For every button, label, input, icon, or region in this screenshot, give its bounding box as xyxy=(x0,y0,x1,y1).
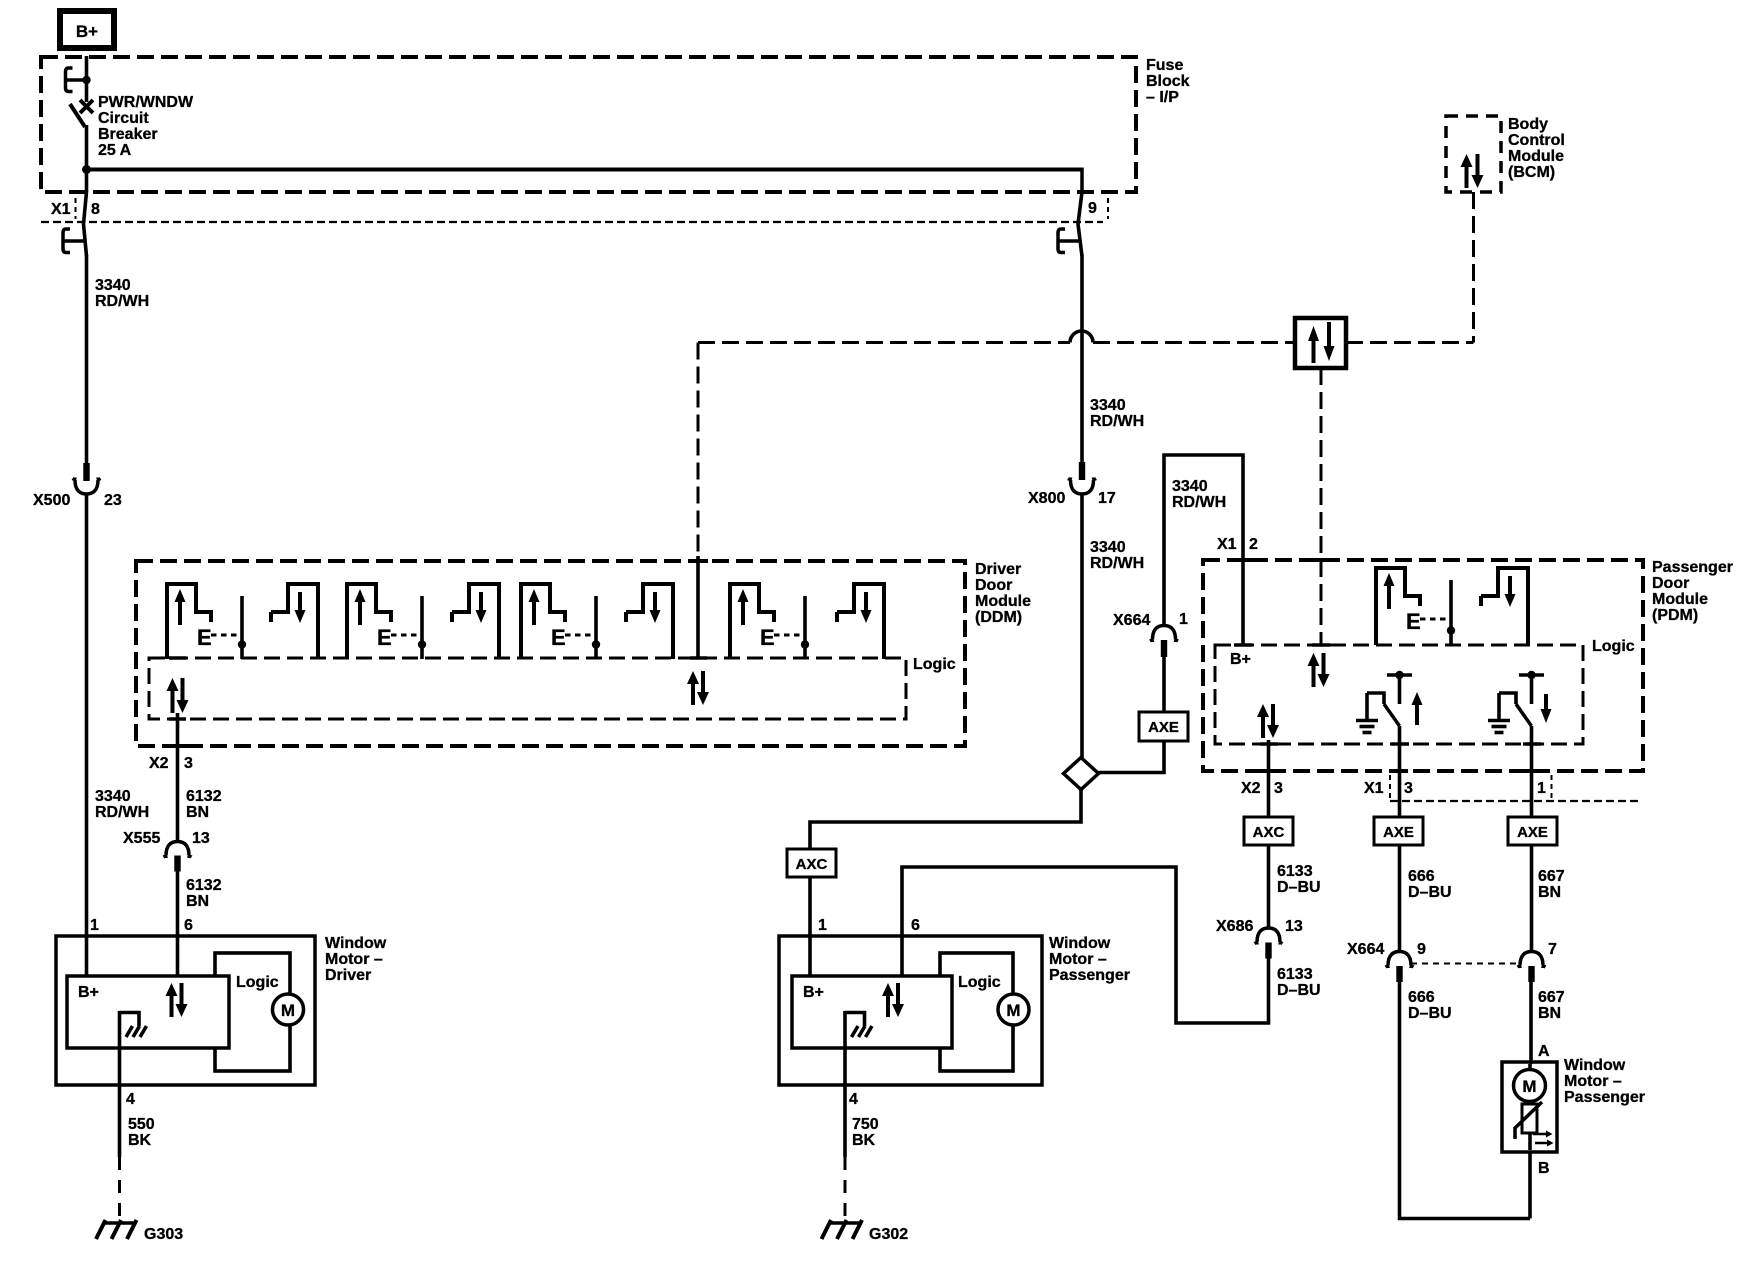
dashed wire BCM down xyxy=(1472,192,1475,343)
svg-text:RD/WH: RD/WH xyxy=(95,804,149,821)
window motor passenger box xyxy=(779,936,1042,1085)
svg-text:Logic: Logic xyxy=(958,974,1001,991)
label pin 4 (driver motor) xyxy=(126,1091,135,1108)
label driver motor B+ xyxy=(78,984,99,1001)
motor M circle (right) xyxy=(1514,1070,1546,1102)
label pin 1 (X664) xyxy=(1179,611,1188,628)
label G302 xyxy=(869,1226,908,1243)
label 3340 RD/WH (left upper) xyxy=(95,277,149,310)
label 666 D-BU (upper) xyxy=(1408,868,1452,901)
svg-text:1: 1 xyxy=(1537,780,1546,797)
wire diamond to AXE riser xyxy=(1099,741,1165,773)
DDM logic dashed box xyxy=(149,658,906,719)
wire AXE to X664-9 xyxy=(1398,845,1402,951)
passenger motor internal ground xyxy=(845,1011,872,1085)
svg-text:Driver: Driver xyxy=(975,561,1021,578)
connector X800 pin 17 xyxy=(1068,462,1096,494)
wire passenger motor pin 6 loop xyxy=(902,867,1269,1023)
window motor driver box xyxy=(56,936,315,1085)
svg-text:6132: 6132 xyxy=(186,877,222,894)
svg-text:B+: B+ xyxy=(1230,651,1251,668)
label X2 pin 3 (DDM) xyxy=(149,755,193,772)
wire AXE to X664-1 xyxy=(1162,657,1166,712)
label Window Motor - Passenger (right) xyxy=(1564,1057,1645,1106)
label 550 BK xyxy=(128,1116,155,1149)
label X800 xyxy=(1028,490,1065,507)
label PDM B+ xyxy=(1230,651,1251,668)
DDM window-up switch 4 xyxy=(730,584,809,659)
connector X686 pin 13 xyxy=(1255,928,1283,959)
connector X1 strip xyxy=(41,198,1108,222)
svg-text:B: B xyxy=(1538,1160,1550,1177)
DDM window-down switch 4 xyxy=(837,584,884,659)
body control module (BCM) dashed box xyxy=(1446,116,1501,192)
ground G303 xyxy=(96,1220,137,1239)
svg-text:9: 9 xyxy=(1417,941,1426,958)
label 3340 RD/WH (left lower) xyxy=(95,788,149,821)
svg-text:X1: X1 xyxy=(1217,536,1237,553)
label PDM Logic xyxy=(1592,638,1635,655)
svg-text:550: 550 xyxy=(128,1116,155,1133)
label Fuse Block - I/P xyxy=(1146,57,1190,106)
dashed serial data wire to DDM xyxy=(697,343,700,558)
label 750 BK xyxy=(852,1116,879,1149)
svg-text:3: 3 xyxy=(1404,780,1413,797)
label 3340 RD/WH (center upper) xyxy=(1090,397,1144,430)
svg-text:G303: G303 xyxy=(144,1226,183,1243)
battery feed B+ box xyxy=(60,11,114,48)
label pin 13 (X686) xyxy=(1285,918,1303,935)
svg-text:X686: X686 xyxy=(1216,918,1253,935)
svg-text:AXE: AXE xyxy=(1148,719,1179,736)
wire data into DDM logic xyxy=(696,556,700,658)
passenger door module (PDM) dashed box xyxy=(1203,560,1643,771)
svg-text:Window: Window xyxy=(1564,1057,1626,1074)
svg-text:Fuse: Fuse xyxy=(1146,57,1183,74)
wire pin9 to X800 xyxy=(1080,255,1084,463)
dashed link X664 pins xyxy=(1411,963,1520,965)
svg-text:X555: X555 xyxy=(123,830,160,847)
connector AXE (center) xyxy=(1139,712,1188,741)
svg-text:Module: Module xyxy=(1508,148,1564,165)
wire B+ to circuit breaker xyxy=(85,56,89,102)
svg-text:6: 6 xyxy=(911,917,920,934)
svg-text:BN: BN xyxy=(186,893,209,910)
svg-text:M: M xyxy=(1006,1001,1020,1020)
PDM window-down switch xyxy=(1481,568,1528,645)
driver motor logic box xyxy=(215,953,290,1071)
label 3340 RD/WH (right) xyxy=(1172,478,1226,511)
passenger motor logic box xyxy=(940,953,1013,1071)
svg-text:X664: X664 xyxy=(1347,941,1384,958)
svg-text:E: E xyxy=(377,625,392,650)
label pin 6 (driver motor) xyxy=(184,917,193,934)
terminal pin 8 xyxy=(63,229,84,253)
svg-text:BN: BN xyxy=(1538,884,1561,901)
junction dot feed bus xyxy=(82,165,91,174)
connector X664 pin 9 xyxy=(1386,952,1414,983)
driver door module (DDM) dashed box xyxy=(136,561,965,746)
label pin B (motor) xyxy=(1538,1160,1550,1177)
svg-text:3: 3 xyxy=(184,755,193,772)
window motor passenger right box xyxy=(1502,1062,1557,1152)
svg-text:(DDM): (DDM) xyxy=(975,609,1022,626)
label 666 D-BU (lower) xyxy=(1408,989,1452,1022)
label 667 BN (lower) xyxy=(1538,989,1565,1022)
label Window Motor - Passenger (middle) xyxy=(1049,935,1130,984)
label Window Motor - Driver xyxy=(325,935,387,984)
DDM logic motor-drive arrows xyxy=(167,678,189,713)
svg-text:BN: BN xyxy=(1538,1005,1561,1022)
pin 9 xyxy=(1088,200,1097,217)
label 6132 BN (lower) xyxy=(186,877,222,910)
svg-text:Passenger: Passenger xyxy=(1652,559,1733,576)
wire X800 to splice diamond xyxy=(1080,494,1084,759)
svg-text:X1: X1 xyxy=(51,201,71,218)
label pin 23 xyxy=(104,492,122,509)
wire DDM X2-3 output xyxy=(176,713,180,841)
svg-text:666: 666 xyxy=(1408,868,1435,885)
feed bus wire to pin 9 xyxy=(87,168,1083,172)
label pin A (motor) xyxy=(1538,1043,1550,1060)
svg-text:Door: Door xyxy=(975,577,1012,594)
svg-text:666: 666 xyxy=(1408,989,1435,1006)
svg-text:Motor –: Motor – xyxy=(1049,951,1107,968)
label pin 9 (X664) xyxy=(1417,941,1426,958)
svg-text:Passenger: Passenger xyxy=(1564,1089,1645,1106)
svg-text:Passenger: Passenger xyxy=(1049,967,1130,984)
svg-text:8: 8 xyxy=(91,201,100,218)
wire PDM X2-3 to AXC xyxy=(1267,740,1271,817)
dashed wire BCM horizontal xyxy=(1346,341,1474,344)
wire X500 to window motor driver xyxy=(85,494,89,936)
svg-text:M: M xyxy=(1522,1077,1536,1096)
label pin 1 (driver motor) xyxy=(90,917,99,934)
svg-text:9: 9 xyxy=(1088,200,1097,217)
svg-text:Breaker: Breaker xyxy=(98,126,158,143)
svg-text:23: 23 xyxy=(104,492,122,509)
label driver motor Logic xyxy=(236,974,279,991)
edge ticks DDM box xyxy=(168,561,708,746)
svg-text:Control: Control xyxy=(1508,132,1565,149)
svg-text:X2: X2 xyxy=(149,755,169,772)
label 6132 BN (upper) xyxy=(186,788,222,821)
svg-text:2: 2 xyxy=(1249,536,1258,553)
svg-text:1: 1 xyxy=(818,917,827,934)
splice diamond xyxy=(1064,758,1099,790)
label passenger motor B+ xyxy=(803,984,824,1001)
connector AXE (far-right) xyxy=(1508,817,1557,845)
wire pin6 into motor xyxy=(176,936,180,976)
label pin 1 (PDM) xyxy=(1537,780,1546,797)
driver motor internal ground xyxy=(120,1011,147,1085)
svg-text:AXC: AXC xyxy=(1253,824,1285,841)
wire PDM pin1 to AXE xyxy=(1530,726,1534,817)
terminal pin 9 xyxy=(1058,229,1079,253)
label PWR/WNDW Circuit Breaker 25 A xyxy=(98,94,194,159)
label 666 D-BU wire A side xyxy=(0,0,1,1)
motor thermal limiter (PTC) xyxy=(1515,1102,1554,1147)
label 6133 D-BU (lower) xyxy=(1277,966,1321,999)
label Driver Door Module (DDM) xyxy=(975,561,1031,626)
circuit breaker PWR/WNDW 25 A xyxy=(70,100,93,127)
svg-text:4: 4 xyxy=(126,1091,135,1108)
label pin 7 (X664) xyxy=(1548,941,1557,958)
label X2 pin 3 (PDM) xyxy=(1241,780,1283,797)
svg-text:Logic: Logic xyxy=(1592,638,1635,655)
wire diamond to AXC left xyxy=(810,790,1081,850)
svg-text:X664: X664 xyxy=(1113,612,1150,629)
connector X500 pin 23 xyxy=(73,463,101,494)
label 3340 RD/WH (center lower) xyxy=(1090,539,1144,572)
dashed serial data wire left with hop xyxy=(698,331,1295,343)
svg-text:RD/WH: RD/WH xyxy=(95,293,149,310)
wire driver motor ground lead xyxy=(118,1085,122,1157)
svg-text:BK: BK xyxy=(852,1132,876,1149)
serial data link connector box xyxy=(1295,318,1346,368)
label X555 xyxy=(123,830,160,847)
dashed ground lead G302 xyxy=(844,1157,847,1222)
svg-text:E: E xyxy=(551,625,566,650)
svg-text:X800: X800 xyxy=(1028,490,1065,507)
wire breaker to bus xyxy=(85,125,89,192)
svg-text:BN: BN xyxy=(186,804,209,821)
svg-text:3340: 3340 xyxy=(1090,539,1126,556)
wire AXC to passenger motor pin 1 xyxy=(808,877,812,936)
svg-text:AXE: AXE xyxy=(1383,824,1414,841)
connector AXC (left) xyxy=(787,849,836,877)
label 667 BN (upper) xyxy=(1538,868,1565,901)
svg-text:667: 667 xyxy=(1538,868,1565,885)
svg-text:Motor –: Motor – xyxy=(1564,1073,1622,1090)
svg-text:667: 667 xyxy=(1538,989,1565,1006)
svg-text:13: 13 xyxy=(192,830,210,847)
svg-text:3340: 3340 xyxy=(95,277,131,294)
svg-text:E: E xyxy=(197,625,212,650)
wire AXC to X686 xyxy=(1267,845,1271,928)
label G303 xyxy=(144,1226,183,1243)
label X1 pin 2 (PDM) xyxy=(1217,536,1258,553)
DDM window-down switch 3 xyxy=(626,584,673,659)
wire PDM X1-3 to AXE xyxy=(1398,726,1402,817)
svg-text:Door: Door xyxy=(1652,575,1689,592)
svg-text:Block: Block xyxy=(1146,73,1190,90)
wire X664-7 to motor A xyxy=(1529,982,1533,1064)
svg-text:Window: Window xyxy=(1049,935,1111,952)
label pin 4 (passenger motor) xyxy=(849,1091,858,1108)
driver motor M circle xyxy=(273,994,304,1025)
svg-text:G302: G302 xyxy=(869,1226,908,1243)
label passenger motor Logic xyxy=(958,974,1001,991)
label pin 13 (X555) xyxy=(192,830,210,847)
dashed ground lead G303 xyxy=(118,1157,121,1222)
passenger motor drive arrows xyxy=(882,983,904,1017)
svg-text:X500: X500 xyxy=(33,492,70,509)
svg-text:RD/WH: RD/WH xyxy=(1090,413,1144,430)
label pin 1 (passenger motor) xyxy=(818,917,827,934)
svg-text:B+: B+ xyxy=(78,984,99,1001)
wire passenger motor ground lead xyxy=(843,1085,847,1157)
edge ticks DDM logic xyxy=(169,658,707,719)
pin 8 xyxy=(91,201,100,218)
connector X664 pin 1 xyxy=(1150,626,1178,658)
PDM window-up switch xyxy=(1376,568,1455,645)
label Body Control Module (BCM) xyxy=(1508,116,1565,181)
edge ticks PDM box xyxy=(1234,560,1540,771)
svg-text:Circuit: Circuit xyxy=(98,110,149,127)
label X1 pin 3 (PDM) xyxy=(1364,780,1413,797)
svg-text:Module: Module xyxy=(1652,591,1708,608)
svg-text:6133: 6133 xyxy=(1277,966,1313,983)
svg-text:(PDM): (PDM) xyxy=(1652,607,1698,624)
svg-text:Driver: Driver xyxy=(325,967,371,984)
label DDM Logic xyxy=(913,656,956,673)
label Passenger Door Module (PDM) xyxy=(1652,559,1733,624)
PDM down ground switch xyxy=(1488,671,1552,733)
svg-text:Window: Window xyxy=(325,935,387,952)
wire motor internal xyxy=(1528,1064,1532,1150)
svg-text:3340: 3340 xyxy=(95,788,131,805)
connector X1 strip (PDM) xyxy=(1390,775,1640,801)
DDM window-down switch 1 xyxy=(271,584,318,659)
connector X664 pin 7 xyxy=(1518,952,1546,983)
wire pin1 into passenger motor xyxy=(808,936,812,976)
svg-text:Module: Module xyxy=(975,593,1031,610)
svg-text:6133: 6133 xyxy=(1277,863,1313,880)
svg-text:A: A xyxy=(1538,1043,1550,1060)
svg-text:1: 1 xyxy=(1179,611,1188,628)
label X664 (pin9) xyxy=(1347,941,1384,958)
svg-text:E: E xyxy=(760,625,775,650)
passenger motor M circle xyxy=(998,994,1029,1025)
svg-text:4: 4 xyxy=(849,1091,858,1108)
svg-text:Body: Body xyxy=(1508,116,1548,133)
wire pin 9 jog xyxy=(1078,192,1082,256)
svg-text:D–BU: D–BU xyxy=(1408,1005,1452,1022)
passenger motor inner block xyxy=(792,976,952,1048)
PDM logic serial-data arrows xyxy=(1308,653,1330,687)
svg-text:D–BU: D–BU xyxy=(1277,879,1321,896)
DDM window-up switch 1 xyxy=(167,584,246,659)
DDM window-up switch 2 xyxy=(347,584,426,659)
DDM window-down switch 2 xyxy=(452,584,499,659)
svg-text:Logic: Logic xyxy=(236,974,279,991)
svg-text:3340: 3340 xyxy=(1090,397,1126,414)
DDM window-up switch 3 xyxy=(521,584,600,659)
DDM logic serial-data arrows xyxy=(687,671,709,705)
driver motor inner block xyxy=(67,976,229,1048)
connector X555 pin 13 xyxy=(164,842,192,872)
wire AXE to X664-7 xyxy=(1530,845,1534,951)
label X664 (pin1) xyxy=(1113,612,1150,629)
svg-text:AXE: AXE xyxy=(1517,824,1548,841)
fuse block - I/P dashed box xyxy=(41,57,1136,192)
svg-text:6132: 6132 xyxy=(186,788,222,805)
svg-text:D–BU: D–BU xyxy=(1408,884,1452,901)
edge ticks PDM logic xyxy=(1234,645,1541,744)
svg-text:(BCM): (BCM) xyxy=(1508,164,1555,181)
svg-text:Motor –: Motor – xyxy=(325,951,383,968)
svg-text:Logic: Logic xyxy=(913,656,956,673)
svg-text:D–BU: D–BU xyxy=(1277,982,1321,999)
svg-text:– I/P: – I/P xyxy=(1146,89,1179,106)
label pin 6 (passenger motor) xyxy=(911,917,920,934)
svg-text:B+: B+ xyxy=(76,22,98,41)
svg-text:X1: X1 xyxy=(1364,780,1384,797)
connector AXE (mid-right) xyxy=(1374,817,1423,845)
svg-text:13: 13 xyxy=(1285,918,1303,935)
svg-text:6: 6 xyxy=(184,917,193,934)
terminal (fuse block feed) xyxy=(66,68,91,92)
PDM logic dashed box xyxy=(1215,645,1583,744)
wire X664-1 to PDM B+ xyxy=(1164,455,1243,645)
PDM up ground switch xyxy=(1356,671,1423,733)
wire pin6 into passenger motor xyxy=(900,936,904,976)
svg-text:750: 750 xyxy=(852,1116,879,1133)
svg-text:3340: 3340 xyxy=(1172,478,1208,495)
svg-text:25 A: 25 A xyxy=(98,142,132,159)
label X1 xyxy=(51,201,71,218)
svg-text:1: 1 xyxy=(90,917,99,934)
svg-text:PWR/WNDW: PWR/WNDW xyxy=(98,94,194,111)
wire bus corner down pin 9 xyxy=(1080,168,1084,195)
wire X664-9 to motor B loop xyxy=(1400,982,1531,1219)
wire motor B down xyxy=(1528,1152,1532,1219)
svg-text:3: 3 xyxy=(1274,780,1283,797)
svg-text:BK: BK xyxy=(128,1132,152,1149)
dashed serial data wire to PDM xyxy=(1320,368,1323,644)
driver motor drive arrows xyxy=(166,983,188,1017)
label 6133 D-BU (upper) xyxy=(1277,863,1321,896)
svg-text:E: E xyxy=(1406,609,1421,634)
svg-text:17: 17 xyxy=(1098,490,1116,507)
ground G302 xyxy=(822,1220,863,1239)
wire 3340 RD/WH left xyxy=(85,255,89,463)
svg-text:RD/WH: RD/WH xyxy=(1172,494,1226,511)
BCM serial data arrows xyxy=(1461,154,1484,188)
svg-text:AXC: AXC xyxy=(796,856,828,873)
label X686 xyxy=(1216,918,1253,935)
svg-text:RD/WH: RD/WH xyxy=(1090,555,1144,572)
label X500 xyxy=(33,492,70,509)
svg-text:7: 7 xyxy=(1548,941,1557,958)
PDM logic motor-drive arrows xyxy=(1257,704,1279,738)
wire pin1 into motor xyxy=(85,936,89,976)
svg-text:M: M xyxy=(281,1001,295,1020)
connector AXC (right) xyxy=(1244,817,1293,845)
label pin 17 xyxy=(1098,490,1116,507)
svg-text:X2: X2 xyxy=(1241,780,1261,797)
wire X555 to motor pin 6 xyxy=(176,871,180,936)
svg-text:B+: B+ xyxy=(803,984,824,1001)
wire pin 8 jog xyxy=(84,192,87,256)
